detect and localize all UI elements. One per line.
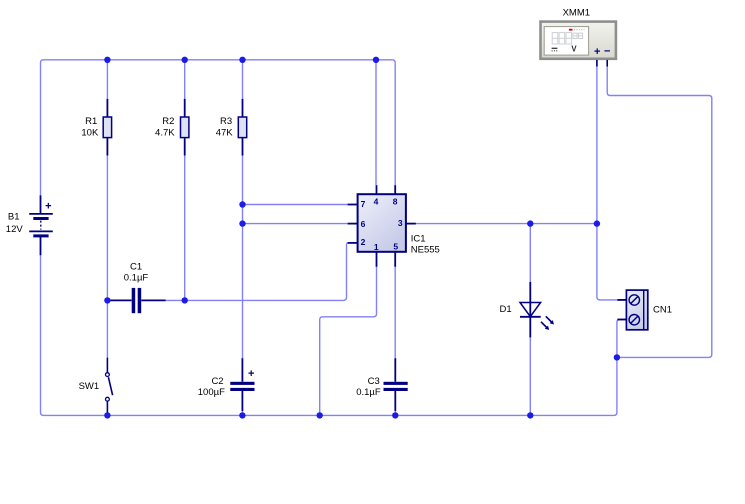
junction C1 left node [104,297,110,303]
capacitor C1 [107,288,165,313]
wire ground bottom rail from battery to CN1 riser [41,255,627,415]
svg-text:NE555: NE555 [411,244,440,255]
svg-text:R2: R2 [162,116,174,127]
junction ground SW1 [104,412,110,418]
svg-text:100µF: 100µF [198,387,225,398]
svg-text:3: 3 [398,218,403,228]
pin 7 lead [348,204,358,206]
pin 6 lead [348,223,358,225]
capacitor C2 [230,358,254,411]
svg-text:V: V [571,45,577,54]
pin 3 lead [406,223,416,225]
op-amp timer IC U1 NE555 body [348,185,416,267]
terminal stubs [596,60,598,67]
junction ground D1 [527,412,533,418]
svg-text:SW1: SW1 [79,381,100,392]
junction R3 branch pin6 [239,220,245,226]
battery B1 [29,195,53,255]
wire R1 branch upper [106,60,108,99]
wire pin6 to R3 branch [243,223,348,225]
svg-text:+: + [594,46,600,58]
svg-text:C2: C2 [211,376,223,387]
wire pin2 to C1 node [166,243,348,301]
junction CN1 bottom ground [614,354,620,360]
svg-text:IC1: IC1 [411,234,426,245]
wire R3 branch down to C2 [242,155,244,358]
connector CN1 [617,290,647,330]
wire D1 anode drop [529,224,531,282]
junction pin3 D1 node [527,220,533,226]
wire R2 branch upper [184,60,186,99]
pin 1 lead [376,252,378,267]
junction ground C3 [392,412,398,418]
wire C3 bottom to ground [394,409,396,415]
svg-text:C1: C1 [130,261,142,272]
svg-text:4.7K: 4.7K [155,128,175,139]
wire pin7 to R3 branch [243,204,348,206]
ghost digit 8 [552,33,582,44]
svg-text:4: 4 [374,196,379,206]
wire D1 cathode to ground [529,337,531,415]
dotted row [574,29,584,31]
multimeter XMM1 [541,22,616,67]
svg-text:2: 2 [361,237,366,247]
junction top rail at R3 [239,57,245,63]
wire pin4 to top rail [375,60,377,185]
junction pin3 XMM+ node [594,220,600,226]
junction ground C2 [239,412,245,418]
junction top rail at R2 [182,57,188,63]
junction top rail at R1 [104,57,110,63]
svg-text:B1: B1 [8,212,20,223]
svg-text:12V: 12V [6,224,24,235]
svg-text:6: 6 [361,219,366,229]
svg-text:D1: D1 [500,304,512,315]
svg-text:8: 8 [393,196,398,206]
DC symbol [552,47,558,49]
svg-text:10K: 10K [81,128,99,139]
svg-text:5: 5 [393,241,398,251]
svg-text:XMM1: XMM1 [563,7,590,18]
resistor R3 [238,99,246,156]
wire VCC top rail with left rail down to battery and pin8 drop [41,60,396,196]
wire R2 branch lower to C1 node [184,155,186,300]
wire pin5 down to C3 [394,267,396,358]
switch SW1 [106,358,113,416]
wire pin1 down left down to ground [320,267,377,416]
svg-text:7: 7 [361,199,366,209]
svg-text:0.1µF: 0.1µF [124,273,149,284]
svg-text:+: + [45,201,51,213]
wire XMM1 negative to right rail down to ground junction [607,60,712,357]
junction R3 branch pin7 [239,201,245,207]
svg-text:47K: 47K [216,128,234,139]
resistor R2 [181,99,189,156]
junction top rail at pin4 [373,57,379,63]
resistor R1 [103,99,111,156]
red indicator [569,29,573,31]
pin 8 lead [394,185,396,194]
svg-text:CN1: CN1 [653,304,672,315]
svg-text:R3: R3 [220,116,232,127]
wire XMM1 positive down to CN1 top terminal [597,60,626,300]
wire R3 branch upper [242,60,244,99]
wire pin3 to D1 and XMM+ node [416,223,597,225]
svg-text:C3: C3 [368,376,380,387]
pin 4 lead [376,185,378,194]
wire C2 bottom to ground [241,409,243,415]
LED D1 [520,282,554,338]
svg-text:−: − [604,46,610,58]
svg-text:+: + [248,368,254,380]
svg-text:1: 1 [374,242,379,252]
pin 2 lead [348,242,358,244]
pin 5 lead [394,252,396,267]
capacitor C3 [384,358,408,411]
junction C1 right R2 node [182,297,188,303]
junction ground pin1 [317,412,323,418]
svg-text:0.1µF: 0.1µF [356,387,381,398]
wire R1 to C1 node and down to SW1 [106,155,108,357]
svg-text:R1: R1 [85,116,97,127]
